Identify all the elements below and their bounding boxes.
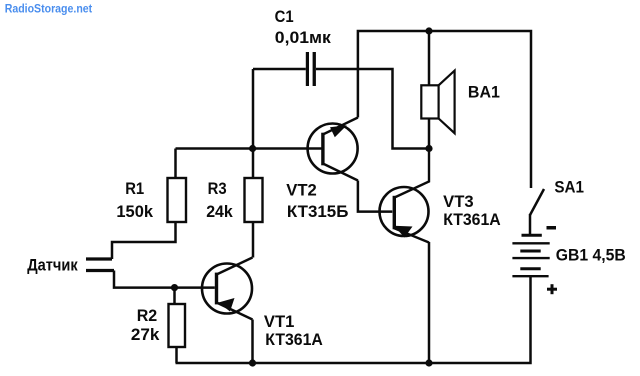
svg-text:КТ315Б: КТ315Б [287,203,349,221]
sensor contact upper [86,257,112,260]
wire battery pivot stem [529,214,532,235]
svg-text:SA1: SA1 [554,179,584,197]
svg-text:GB1 4,5В: GB1 4,5В [556,247,626,265]
svg-text:C1: C1 [275,8,294,26]
transistor VT1 [202,258,253,320]
svg-text:BA1: BA1 [468,84,500,102]
wire VT3 emitter drop [428,242,431,363]
wire R2 bottom stem [175,347,178,363]
svg-text:24k: 24k [206,203,234,221]
svg-text:КТ361А: КТ361А [443,211,501,229]
wire R2 top stem [173,288,176,304]
wire C1 left lead [253,68,306,71]
resistor R2 [169,304,186,347]
battery GB1 plates [512,235,549,276]
svg-text:27k: 27k [131,326,161,344]
svg-text:КТ361А: КТ361А [265,331,323,349]
sensor contact lower [86,269,114,272]
wire R1 bottom to upper sensor contact [112,222,176,259]
node speaker top junction [425,27,432,34]
svg-text:0,01мк: 0,01мк [275,29,332,47]
svg-text:VT1: VT1 [264,313,295,331]
node VT1 emitter bottom rail junction [249,359,256,366]
battery minus sign [547,226,557,230]
wire sensor lower contact to VT1 base [114,271,215,288]
capacitor C1 plates [306,52,316,86]
wire R1 top stem [174,149,177,179]
transistor VT2 [308,118,358,181]
node speaker bottom / VT3 collector junction [425,145,432,152]
svg-text:RadioStorage.net: RadioStorage.net [5,2,93,16]
wire base rail R1 to VT2 base [176,147,322,150]
svg-text:R1: R1 [125,180,144,198]
resistor R3 [245,178,263,222]
svg-text:R2: R2 [137,307,158,325]
wire top rail [358,31,531,188]
wire R3 top stem [252,149,255,179]
resistor R1 [168,178,187,222]
wire C1 right lead to VT3 collector node [316,69,429,149]
battery plus sign [547,284,557,294]
wire R3 bottom stem to VT1 collector [252,222,255,258]
wire C1 branch down to base rail node [252,69,255,149]
svg-text:150k: 150k [116,203,154,221]
wire VT1 emitter drop [251,320,254,364]
node VT1 base / R2 junction [171,284,178,291]
wire bottom rail [176,276,531,363]
wire speaker bottom stem [428,119,431,149]
node base rail junction [249,145,256,152]
speaker BA1 [421,71,454,134]
transistor VT3 [380,149,430,243]
switch SA1 blade [530,189,544,215]
svg-text:VT3: VT3 [443,193,474,211]
wire VT2 collector to VT3 base [358,181,392,212]
svg-text:VT2: VT2 [286,182,317,200]
node VT3 emitter bottom rail junction [425,359,432,366]
svg-text:Датчик: Датчик [27,257,78,275]
wire speaker top stem [428,31,431,86]
svg-text:R3: R3 [208,180,227,198]
